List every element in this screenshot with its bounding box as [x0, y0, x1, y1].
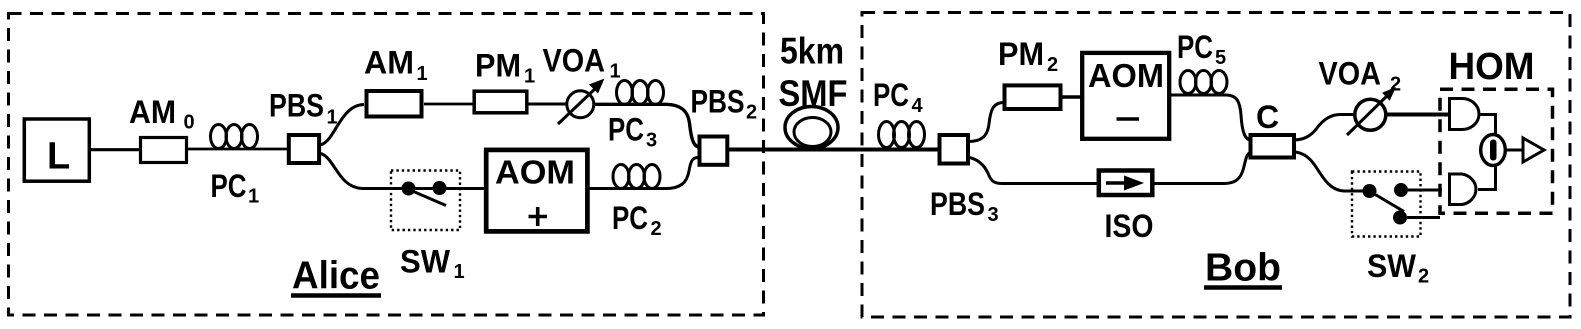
wire C to VOA2	[1293, 115, 1356, 141]
wire D1 to correlator	[1478, 115, 1496, 135]
wire AOM to coupler C (upper)	[1169, 95, 1252, 141]
svg-text:AM: AM	[129, 94, 176, 130]
svg-text:0: 0	[184, 112, 195, 134]
polarization controller PC5 coils	[1180, 71, 1227, 94]
modulator AM0	[141, 138, 187, 163]
wire PBS1 to AM1 (upper arm)	[319, 105, 364, 146]
svg-text:SW: SW	[400, 244, 451, 280]
wire VOA1 to PBS2 (upper into splitter)	[594, 104, 699, 147]
beamsplitter PBS3	[940, 135, 969, 164]
detector D1	[1450, 98, 1480, 129]
svg-text:4: 4	[912, 95, 924, 117]
svg-text:SW: SW	[1367, 248, 1417, 284]
svg-text:L: L	[47, 136, 70, 178]
svg-text:PC: PC	[1177, 29, 1213, 65]
wire PBS3 to ISO (lower arm)	[967, 157, 1098, 184]
wire PBS1 to SW1 and AOM (lower arm)	[319, 153, 486, 189]
polarization controller PC3 coils	[617, 81, 664, 105]
wire D2 to correlator	[1478, 166, 1496, 190]
svg-text:5km: 5km	[780, 31, 844, 72]
modulator PM2	[1005, 85, 1061, 109]
wire PM2 to AOM	[1060, 95, 1082, 99]
svg-text:3: 3	[646, 130, 657, 152]
svg-text:Alice: Alice	[292, 255, 380, 298]
beamsplitter PBS1	[289, 135, 319, 163]
svg-text:5: 5	[1215, 47, 1226, 69]
coupler C	[1251, 135, 1295, 158]
wire AM1 to PM1	[424, 103, 473, 106]
svg-text:1: 1	[524, 66, 535, 88]
svg-text:PBS: PBS	[691, 84, 745, 120]
Alice enclosure dashed box	[9, 14, 764, 316]
correlator circle with bar	[1481, 135, 1506, 166]
svg-text:PC: PC	[211, 168, 247, 204]
fiber spool SMF	[785, 107, 838, 149]
svg-text:AM: AM	[364, 45, 414, 81]
modulator AOM plus	[486, 150, 587, 232]
SW1 lever	[410, 190, 446, 206]
polarization controller PC1 coils	[211, 125, 258, 149]
wire PBS3 to PM2 (upper arm)	[968, 103, 1004, 142]
svg-text:3: 3	[988, 204, 999, 226]
switch SW1 dotted box	[391, 171, 460, 231]
svg-text:PM: PM	[475, 48, 521, 84]
svg-text:ISO: ISO	[1105, 208, 1154, 244]
svg-text:PC: PC	[612, 200, 648, 236]
switch SW2 dotted box	[1352, 172, 1421, 237]
svg-text:2: 2	[651, 218, 662, 240]
SW1 contact dots	[402, 182, 416, 196]
SW2 wire to detector D2	[1408, 189, 1442, 192]
trunk fiber PBS2 to PBS3	[727, 148, 940, 152]
laser L	[24, 119, 89, 181]
svg-text:VOA: VOA	[543, 43, 606, 79]
wire PM1 to VOA1	[528, 103, 570, 106]
wire L to AM0	[89, 148, 141, 151]
amplifier triangle	[1523, 138, 1544, 162]
modulator AM1	[367, 91, 422, 117]
svg-text:1: 1	[417, 63, 428, 85]
attenuator VOA2	[1355, 99, 1386, 130]
svg-text:PBS: PBS	[930, 186, 985, 222]
detector D2	[1450, 174, 1476, 205]
svg-text:2: 2	[1390, 74, 1401, 96]
svg-text:2: 2	[1047, 54, 1058, 76]
svg-text:1: 1	[610, 61, 621, 83]
HOM enclosure dashed box	[1440, 89, 1553, 213]
svg-text:1: 1	[327, 107, 338, 129]
svg-text:2: 2	[746, 102, 757, 124]
svg-text:C: C	[1256, 99, 1279, 135]
modulator PM1	[474, 91, 527, 113]
svg-text:PBS: PBS	[269, 88, 324, 124]
polarization controller PC4 coils	[879, 122, 925, 148]
Bob enclosure dashed box	[862, 13, 1570, 318]
wire AOM to PBS2 (lower into splitter)	[588, 158, 699, 189]
svg-text:VOA: VOA	[1319, 56, 1382, 92]
svg-text:HOM: HOM	[1449, 46, 1535, 88]
attenuator VOA1	[567, 91, 594, 118]
isolator ISO	[1099, 171, 1153, 196]
svg-text:PM: PM	[998, 36, 1044, 72]
svg-text:AOM: AOM	[495, 154, 575, 191]
svg-text:AOM: AOM	[1088, 57, 1164, 94]
wire VOA2 to detector D1	[1386, 113, 1450, 117]
svg-text:PC: PC	[873, 77, 909, 113]
SW2 lever	[1371, 192, 1404, 212]
beamsplitter PBS2	[700, 137, 728, 165]
svg-text:1: 1	[454, 261, 465, 283]
SW2 contact dots	[1363, 184, 1377, 198]
wire AM0 to PBS1	[186, 148, 289, 151]
svg-text:Bob: Bob	[1205, 247, 1281, 290]
modulator AOM minus	[1082, 53, 1169, 139]
SW2 lower stub wire	[1407, 216, 1440, 219]
svg-text:1: 1	[248, 186, 259, 208]
wire C to SW2 (lower)	[1293, 152, 1363, 191]
svg-text:PC: PC	[608, 112, 644, 148]
polarization controller PC2 coils	[613, 165, 660, 189]
wire correlator to amplifier	[1507, 149, 1525, 152]
wire ISO to coupler C (lower)	[1152, 152, 1252, 184]
svg-text:2: 2	[1418, 266, 1429, 288]
